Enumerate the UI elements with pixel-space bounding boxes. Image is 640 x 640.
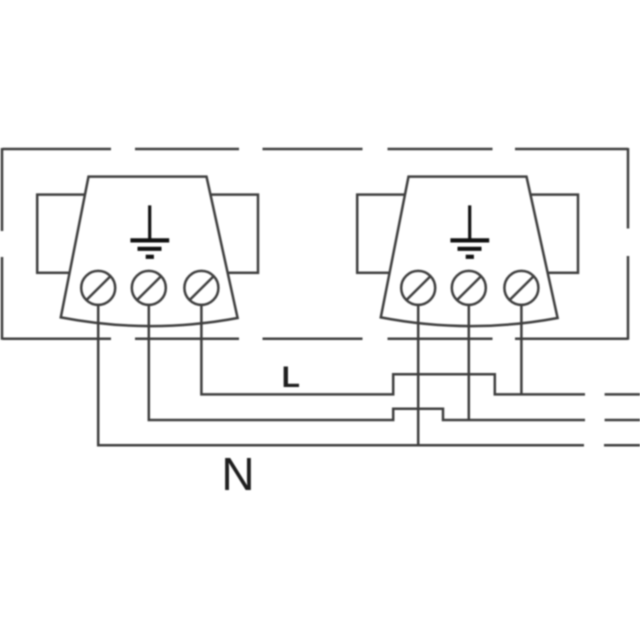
wire: fitting 2 terminal 1 drop to neutral [417, 305, 420, 446]
fitting 2 terminal block body [381, 177, 558, 327]
earth symbol (fitting 2) [450, 205, 489, 256]
dashed enclosure border (right edge) [627, 148, 630, 340]
fitting 1 terminal block body [61, 177, 238, 327]
wire continuation dash (live) [605, 393, 640, 396]
fitting 2 mounting tabs [357, 195, 578, 273]
svg-text:N: N [221, 448, 254, 500]
wire continuation dash (neutral) [604, 444, 640, 447]
terminal 2 of fitting 2 [452, 271, 486, 305]
wire: fitting 2 terminal 3 drop to live wire [520, 305, 523, 395]
dashed enclosure border (left edge) [1, 148, 4, 340]
terminal 1 of fitting 1 (earth screw) [81, 271, 115, 305]
terminal 3 of fitting 2 [504, 271, 538, 305]
dashed enclosure border (bottom edge) [3, 337, 629, 340]
earth symbol (fitting 1) [130, 205, 169, 256]
terminal 2 of fitting 1 [132, 271, 166, 305]
wire continuation dash (loop) [605, 419, 640, 422]
wire: neutral (N) from fitting 1 terminal 1, to right edge [98, 305, 584, 446]
svg-text:L: L [282, 361, 300, 394]
terminal 1 of fitting 2 (earth screw) [401, 271, 435, 305]
label L (live) [282, 361, 300, 394]
wire: switched/loop from fitting 1 terminal 2 with bridge jog, to right edge [149, 305, 585, 420]
wire: fitting 2 terminal 2 drop to loop wire [468, 305, 471, 420]
wire: live (L) from fitting 1 terminal 3 with bridge jog, to right edge [201, 305, 585, 395]
terminal 3 of fitting 1 [184, 271, 218, 305]
label N (neutral) [221, 448, 254, 500]
dashed enclosure border (top edge) [3, 148, 629, 151]
fitting 1 mounting tabs [37, 195, 258, 273]
